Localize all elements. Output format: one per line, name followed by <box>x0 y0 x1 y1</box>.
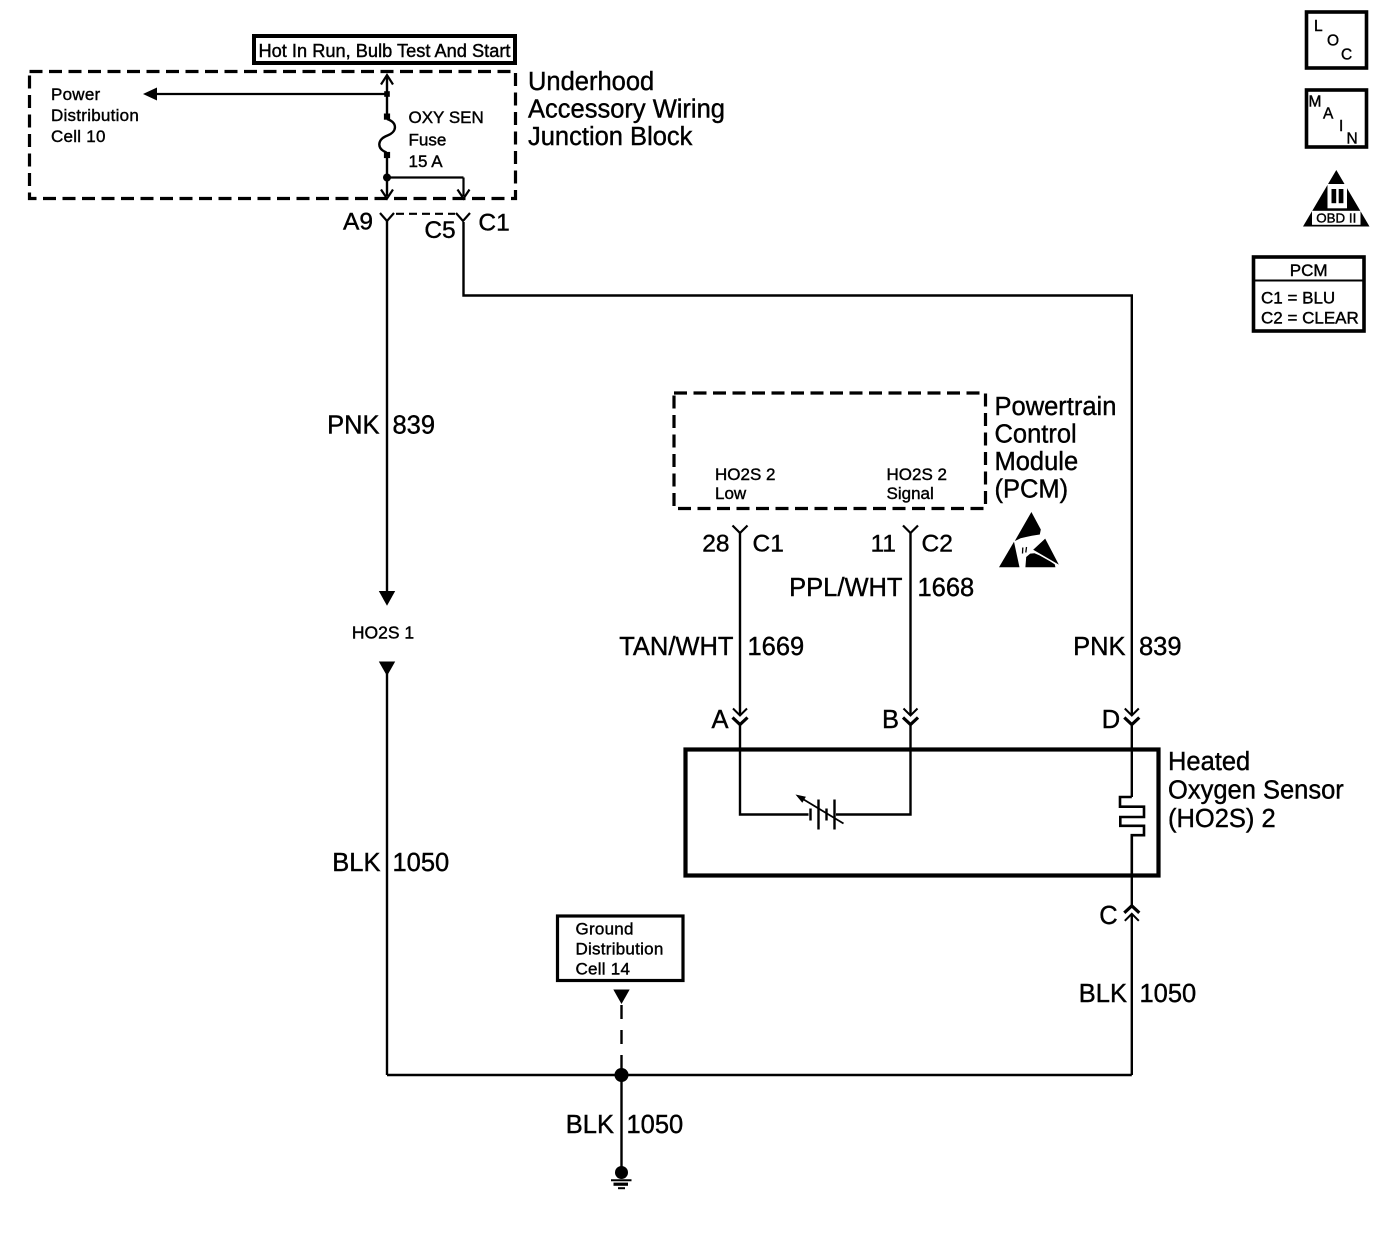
svg-text:HO2S 2: HO2S 2 <box>887 465 947 484</box>
node: ground bus junction <box>615 1068 629 1082</box>
label box: Hot In Run, Bulb Test And Start <box>254 36 515 63</box>
wire: BLK 1050 to ground <box>620 1075 622 1167</box>
svg-text:TAN/WHT: TAN/WHT <box>619 633 733 661</box>
legend icon: OBD II triangle <box>1303 170 1370 227</box>
svg-text:PPL/WHT: PPL/WHT <box>789 574 902 602</box>
wire: TAN/WHT 1669 <box>739 533 741 715</box>
node: junction at arrow line <box>384 91 390 97</box>
legend box: PCM connectors <box>1254 257 1365 331</box>
svg-text:BLK: BLK <box>1079 980 1127 1008</box>
fuse F1: OXY SEN Fuse 15 A <box>379 114 395 159</box>
svg-text:PNK: PNK <box>327 412 379 440</box>
svg-text:839: 839 <box>1139 633 1182 661</box>
wire: BLK 1050 right vertical <box>1131 914 1133 1075</box>
node: fuse output junction dot <box>383 174 391 182</box>
svg-text:Distribution: Distribution <box>576 940 664 959</box>
junction block U1: Underhood Accessory Wiring Junction Block (dashed box) <box>30 72 516 199</box>
svg-text:C1: C1 <box>753 531 784 558</box>
label: TAN/WHT 1669 <box>619 633 804 661</box>
pin label: HO2S 2 Signal <box>887 465 947 503</box>
label: Power Distribution Cell 10 <box>51 85 139 146</box>
label box: Ground Distribution Cell 14 <box>558 916 684 981</box>
wire: to Power Distribution Cell 10 (arrow left) <box>143 88 387 101</box>
connector C5 (dashed in-line) <box>396 213 455 215</box>
svg-text:Control: Control <box>995 421 1077 449</box>
connector C1 pin 28 (Y symbol) <box>733 526 748 534</box>
svg-text:Powertrain: Powertrain <box>995 393 1117 421</box>
svg-text:C2 = CLEAR: C2 = CLEAR <box>1261 309 1359 328</box>
svg-text:N: N <box>1347 131 1358 148</box>
connector terminal D (double chevron) <box>1124 709 1139 725</box>
ESD sensitive symbol <box>999 512 1059 567</box>
svg-text:B: B <box>882 706 899 734</box>
label: PPL/WHT 1668 <box>789 574 974 602</box>
svg-text:A9: A9 <box>343 209 373 236</box>
svg-text:O: O <box>1327 33 1339 50</box>
svg-text:C5: C5 <box>424 217 455 244</box>
label: BLK 1050 (left wire) <box>332 849 449 877</box>
svg-text:28: 28 <box>702 531 729 558</box>
svg-text:11: 11 <box>871 531 896 558</box>
svg-text:Signal: Signal <box>887 484 934 503</box>
wire: fuse feed from Hot In Run (up arrow) <box>381 75 393 114</box>
svg-text:I: I <box>1339 118 1343 135</box>
svg-text:C: C <box>1341 47 1352 64</box>
svg-text:Distribution: Distribution <box>51 106 139 125</box>
connector A9 (Y symbol) <box>380 213 394 221</box>
svg-text:1050: 1050 <box>393 849 450 877</box>
svg-text:OXY SEN: OXY SEN <box>409 108 484 127</box>
svg-text:1668: 1668 <box>918 574 975 602</box>
svg-text:C2: C2 <box>922 531 953 558</box>
pin label: 28 C1 <box>702 531 784 558</box>
label: Heated Oxygen Sensor (HO2S) 2 <box>1168 748 1344 833</box>
sensing element (variable voltage source) <box>796 795 844 830</box>
svg-text:OBD II: OBD II <box>1316 212 1356 226</box>
svg-text:M: M <box>1309 94 1322 111</box>
wire: arrow to HO2S 1 (off-page, solid arrowhead) <box>379 591 395 606</box>
svg-text:Cell 14: Cell 14 <box>576 960 631 979</box>
label: Powertrain Control Module (PCM) <box>995 393 1117 504</box>
wire: pin A into sensor <box>740 725 809 815</box>
wire: sensing element to pin B <box>836 725 911 815</box>
svg-text:Cell 10: Cell 10 <box>51 127 106 146</box>
svg-text:839: 839 <box>393 412 436 440</box>
label: OXY SEN Fuse 15 A <box>409 108 484 171</box>
legend icon: MAIN <box>1307 90 1367 148</box>
svg-text:Hot In Run, Bulb Test And Star: Hot In Run, Bulb Test And Start <box>259 41 511 61</box>
label: Underhood Accessory Wiring Junction Block <box>528 68 725 151</box>
wire: fuse output down to junction <box>386 158 388 196</box>
svg-text:C1: C1 <box>478 209 509 236</box>
svg-text:BLK: BLK <box>332 849 380 877</box>
sensor box: Heated Oxygen Sensor (HO2S) 2 <box>686 750 1159 876</box>
label: PNK 839 <box>327 412 435 440</box>
svg-text:L: L <box>1314 18 1323 35</box>
svg-text:Heated: Heated <box>1168 748 1250 776</box>
svg-text:(PCM): (PCM) <box>995 476 1069 504</box>
svg-text:A: A <box>1323 106 1334 123</box>
svg-text:Low: Low <box>715 484 747 503</box>
legend icon: LOC <box>1307 12 1367 68</box>
svg-text:C1 = BLU: C1 = BLU <box>1261 289 1335 308</box>
svg-text:Oxygen Sensor: Oxygen Sensor <box>1168 777 1344 805</box>
svg-text:D: D <box>1102 706 1120 734</box>
svg-text:C: C <box>1099 902 1117 930</box>
svg-text:(HO2S) 2: (HO2S) 2 <box>1168 805 1276 833</box>
connector C1 (Y symbol) <box>456 213 470 221</box>
label: BLK 1050 (right wire) <box>1079 980 1196 1008</box>
svg-text:Fuse: Fuse <box>409 131 447 150</box>
wire: pin D into sensor <box>1131 725 1133 798</box>
svg-text:Ground: Ground <box>576 920 634 939</box>
ground G1 <box>611 1166 632 1188</box>
svg-text:BLK: BLK <box>566 1111 614 1139</box>
svg-text:Module: Module <box>995 448 1079 476</box>
wire: bottom ground bus <box>387 1074 1132 1076</box>
svg-text:Power: Power <box>51 85 101 104</box>
svg-text:Underhood: Underhood <box>528 68 654 96</box>
svg-text:15 A: 15 A <box>409 152 444 171</box>
svg-text:PCM: PCM <box>1290 261 1328 280</box>
svg-text:HO2S 2: HO2S 2 <box>715 465 775 484</box>
svg-text:Accessory Wiring: Accessory Wiring <box>528 96 725 124</box>
heater element (meander resistor) <box>1120 797 1144 876</box>
connector terminal C (double chevron up) <box>1124 906 1139 921</box>
connector C2 pin 11 (Y symbol) <box>903 526 918 534</box>
svg-text:1669: 1669 <box>748 633 805 661</box>
pin label: HO2S 2 Low <box>715 465 775 503</box>
wire: A9 exit (down arrow at block edge) <box>381 190 393 199</box>
svg-text:1050: 1050 <box>627 1111 684 1139</box>
wire: dashed link to Ground Distribution (solid arrowhead) <box>613 990 629 1071</box>
wire: PNK 839 left vertical <box>386 221 388 592</box>
wire: C1 feed to PCM area (PNK 839 right) <box>464 222 1132 715</box>
svg-text:A: A <box>711 706 728 734</box>
connector terminal B (double chevron) <box>903 709 918 725</box>
connector terminal A (double chevron) <box>733 709 748 725</box>
svg-text:Junction Block: Junction Block <box>528 123 693 151</box>
label: BLK 1050 (ground wire) <box>566 1111 683 1139</box>
wire: continuation from HO2S 1 (solid arrowhead) <box>379 662 395 1076</box>
svg-text:HO2S 1: HO2S 1 <box>352 623 414 643</box>
svg-text:PNK: PNK <box>1073 633 1125 661</box>
wire: heater to pin C <box>1131 873 1133 906</box>
wire: PPL/WHT 1668 <box>909 533 911 715</box>
pin label: 11 C2 <box>871 531 953 558</box>
label: PNK 839 (right wire) <box>1073 633 1181 661</box>
module: Powertrain Control Module (dashed box) <box>674 393 986 509</box>
svg-text:1050: 1050 <box>1140 980 1197 1008</box>
wire: branch to C1 exit <box>387 178 470 199</box>
